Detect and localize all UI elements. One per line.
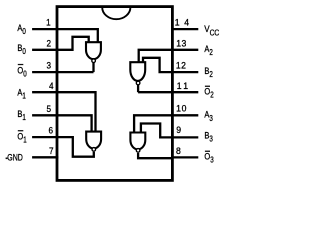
wire U1D output to pin8 — [138, 153, 172, 158]
overbar O2 — [205, 86, 210, 87]
NAND gate U1D bubble — [136, 149, 140, 153]
wire pin14 VCC — [171, 28, 198, 30]
svg-text:8: 8 — [176, 146, 181, 157]
overbar O1 — [18, 130, 24, 131]
overbar O0 — [18, 64, 24, 65]
wire pin12 B2 step to gate U1C input — [143, 58, 198, 72]
NAND gate U1A body — [86, 42, 101, 59]
svg-text:12: 12 — [176, 60, 187, 71]
svg-text:7: 7 — [49, 145, 54, 156]
wire pin13 A2 to gate U1C input — [139, 50, 199, 62]
wire pin4 A1 to gate U1B input — [32, 92, 95, 131]
wire pin3 O0 from gate U1A output — [32, 71, 93, 73]
wire U1A output vertical — [92, 62, 94, 72]
overbar O3 — [205, 151, 210, 152]
svg-text:9: 9 — [176, 125, 181, 136]
svg-text:11: 11 — [177, 80, 191, 91]
svg-text:14: 14 — [175, 17, 194, 28]
svg-text:2: 2 — [46, 38, 51, 49]
GND lead dash — [6, 158, 8, 160]
svg-text:10: 10 — [176, 103, 187, 114]
NAND gate U1D body — [130, 133, 145, 150]
wire U1C output vertical — [137, 85, 139, 92]
svg-text:3: 3 — [46, 60, 51, 71]
wire pin9 B3 step to gate U1D input — [141, 124, 198, 138]
NAND gate U1B body — [86, 132, 101, 149]
wire pin8 O3 — [171, 156, 198, 158]
wire pin10 A3 to gate U1D input — [134, 115, 198, 132]
wire pin2 B0 step to gate U1A input — [32, 37, 89, 50]
wire pin7 GND — [32, 156, 58, 158]
svg-text:5: 5 — [46, 103, 51, 114]
wire pin6 O1 from gate U1B output — [32, 137, 94, 157]
NAND gate U1B bubble — [92, 148, 96, 152]
svg-text:1: 1 — [46, 17, 51, 28]
svg-text:GND: GND — [7, 151, 23, 162]
wire pin11 O2 from gate U1C output — [138, 91, 198, 93]
svg-text:13: 13 — [176, 38, 187, 49]
svg-text:4: 4 — [49, 80, 54, 91]
NAND gate U1A bubble — [92, 59, 96, 63]
IC body U1 (14-pin DIP outline) — [57, 7, 172, 181]
svg-text:6: 6 — [48, 125, 53, 136]
wire pin1 A0 to gate U1A input — [32, 29, 98, 42]
notch (pin-1 index semicircle) — [102, 7, 130, 19]
NAND gate U1C bubble — [136, 81, 140, 85]
wire pin5 B1 to gate U1B input — [32, 115, 92, 131]
NAND gate U1C body — [130, 62, 145, 81]
